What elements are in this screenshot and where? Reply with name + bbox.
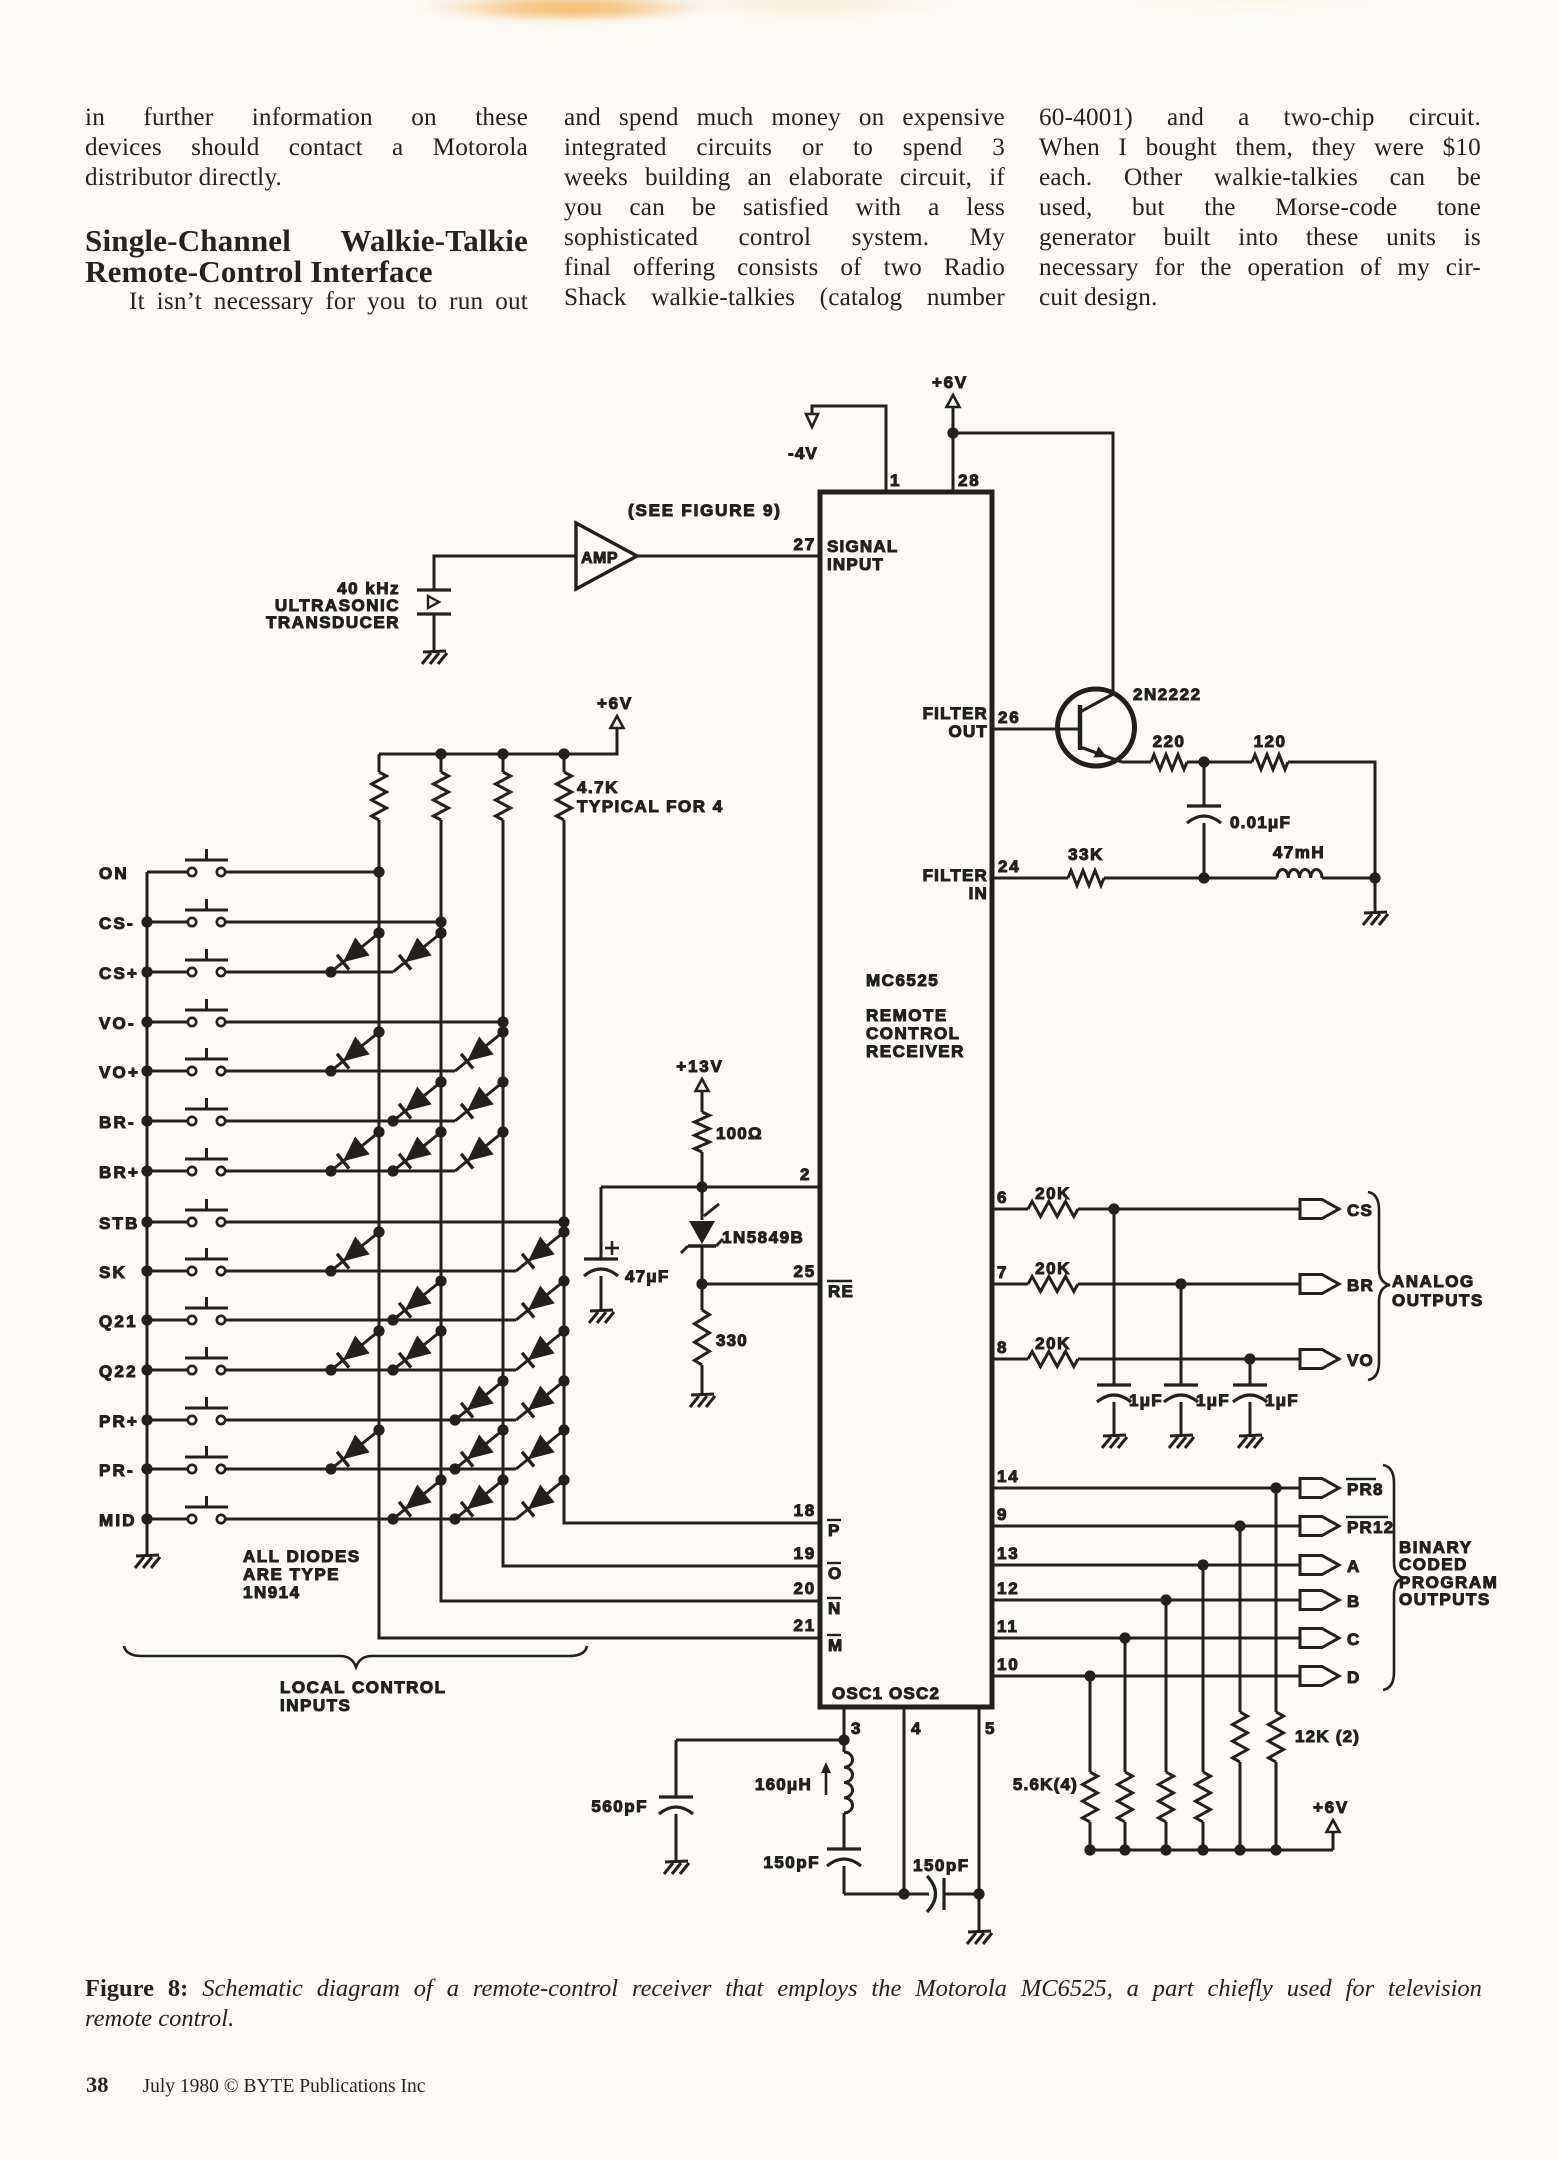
node output PR12 bbox=[1300, 1517, 1339, 1536]
junction BR filter bbox=[1175, 1278, 1186, 1289]
svg-text:120: 120 bbox=[1254, 732, 1287, 751]
svg-text:4.7K: 4.7K bbox=[577, 778, 619, 797]
node +6V pullup supply bbox=[611, 716, 624, 728]
wire SK row bbox=[225, 1270, 516, 1273]
wire pin 4 bbox=[903, 1707, 906, 1894]
wire column O bus to pin bbox=[503, 820, 820, 1566]
svg-text:(SEE FIGURE 9): (SEE FIGURE 9) bbox=[628, 501, 782, 520]
junction zener top bbox=[696, 1181, 707, 1192]
svg-text:VO-: VO- bbox=[99, 1014, 136, 1033]
wire pin 12 to output B bbox=[992, 1599, 1300, 1602]
resistor pullup C bbox=[1118, 1772, 1133, 1822]
svg-text:18: 18 bbox=[793, 1501, 816, 1520]
resistor 4.7K column O bbox=[502, 754, 505, 772]
diode D10 SK to column M bbox=[331, 1232, 379, 1271]
junction Q22 left bus bbox=[141, 1364, 152, 1375]
IC U1 MC6525 remote control receiver bbox=[820, 492, 992, 1707]
diode D14 Q22 to column M bbox=[331, 1331, 379, 1370]
wire pin 6 to resistor bbox=[992, 1208, 1028, 1211]
switch ON bbox=[147, 871, 188, 874]
junction VO+ left bus bbox=[141, 1065, 152, 1076]
diode D2 CS+ to column N bbox=[393, 933, 441, 972]
svg-text:P: P bbox=[828, 1521, 839, 1540]
svg-text:1μF: 1μF bbox=[1129, 1391, 1163, 1410]
svg-text:OUTPUTS: OUTPUTS bbox=[1399, 1590, 1491, 1609]
svg-text:CONTROL: CONTROL bbox=[866, 1024, 961, 1043]
junction +6V node bbox=[947, 427, 958, 438]
wire 1uF BR ground bbox=[1180, 1402, 1183, 1436]
wire pullup bus bbox=[379, 728, 617, 754]
ground 1uF BR bbox=[1170, 1435, 1193, 1436]
junction VO filter bbox=[1244, 1353, 1255, 1364]
wire PR12 pullup to bus bbox=[1239, 1762, 1242, 1850]
svg-text:560pF: 560pF bbox=[591, 1797, 648, 1816]
switch PR+ bbox=[147, 1419, 188, 1422]
node output C bbox=[1300, 1629, 1339, 1648]
svg-text:14: 14 bbox=[997, 1467, 1020, 1486]
wire C pullup bbox=[1124, 1638, 1127, 1772]
svg-text:Q21: Q21 bbox=[99, 1312, 138, 1331]
wire inductor to ground corner bbox=[1322, 877, 1375, 880]
wire 560pF ground bbox=[675, 1814, 678, 1862]
switch Q22 bbox=[147, 1369, 188, 1372]
junction CS- left bus bbox=[141, 916, 152, 927]
wire D pullup bbox=[1089, 1676, 1092, 1772]
wire pin 14 to output PR8 bbox=[992, 1487, 1300, 1490]
diode D19 PR- to column M bbox=[331, 1430, 379, 1469]
wire CS- row bbox=[225, 921, 441, 924]
junction Q21 left bus bbox=[141, 1314, 152, 1325]
wire pin 3 bbox=[843, 1707, 846, 1740]
switch VO- bbox=[147, 1021, 188, 1024]
svg-text:2: 2 bbox=[800, 1165, 811, 1184]
junction STB to column P bbox=[558, 1216, 569, 1227]
diode D13 Q21 to column P bbox=[516, 1281, 564, 1320]
wire pin 11 to output C bbox=[992, 1637, 1300, 1640]
junction PR12 bbox=[1234, 1520, 1245, 1531]
diode D8 BR+ to column N bbox=[393, 1132, 441, 1171]
svg-text:1μF: 1μF bbox=[1196, 1391, 1230, 1410]
junction bus PR8 bbox=[1270, 1844, 1281, 1855]
svg-text:+13V: +13V bbox=[676, 1057, 723, 1076]
svg-text:MID: MID bbox=[99, 1511, 137, 1530]
node output PR8 bbox=[1300, 1479, 1339, 1498]
svg-text:1N914: 1N914 bbox=[243, 1583, 301, 1602]
junction STB left bus bbox=[141, 1216, 152, 1227]
resistor 20K pin 6 bbox=[1028, 1202, 1078, 1217]
wire 1uF VO ground bbox=[1249, 1402, 1252, 1436]
svg-text:160μH: 160μH bbox=[755, 1775, 812, 1794]
diode D11 SK to column P bbox=[516, 1232, 564, 1271]
resistor 4.7K column M bbox=[378, 754, 381, 772]
svg-text:5: 5 bbox=[985, 1719, 996, 1738]
resistor 330 bbox=[701, 1284, 704, 1310]
svg-text:M: M bbox=[828, 1636, 842, 1655]
svg-text:Q22: Q22 bbox=[99, 1362, 138, 1381]
junction CS filter bbox=[1108, 1203, 1119, 1214]
brace binary outputs bbox=[1383, 1465, 1404, 1690]
junction A bbox=[1197, 1559, 1208, 1570]
svg-text:27: 27 bbox=[793, 535, 816, 554]
node +6V pullup bottom bbox=[1327, 1820, 1340, 1832]
ground 1uF CS bbox=[1103, 1435, 1126, 1436]
capacitor 150pF osc1 bbox=[843, 1813, 846, 1849]
svg-text:RE: RE bbox=[828, 1282, 854, 1301]
wire VO+ row bbox=[225, 1070, 455, 1073]
ground 560pF bbox=[665, 1861, 688, 1862]
wire zener to pin 25 node bbox=[701, 1246, 704, 1284]
brace local control inputs bbox=[124, 1646, 587, 1667]
svg-text:330: 330 bbox=[716, 1331, 748, 1350]
diode zener 1N5849B bbox=[701, 1187, 704, 1220]
diode D18 PR+ to column P bbox=[516, 1381, 564, 1420]
junction B bbox=[1160, 1594, 1171, 1605]
svg-text:PR8: PR8 bbox=[1347, 1480, 1384, 1499]
wire VO cap bbox=[1249, 1359, 1252, 1385]
diode D24 MID to column P bbox=[516, 1480, 564, 1519]
diode D16 Q22 to column P bbox=[516, 1331, 564, 1370]
svg-text:+6V: +6V bbox=[932, 373, 968, 392]
svg-text:220: 220 bbox=[1153, 732, 1186, 751]
junction inductor ground node bbox=[1369, 872, 1380, 883]
svg-text:O: O bbox=[828, 1564, 841, 1583]
svg-text:A: A bbox=[1347, 1557, 1360, 1576]
wire ON row bbox=[225, 871, 379, 874]
wire STB row bbox=[225, 1221, 564, 1224]
svg-text:ANALOG: ANALOG bbox=[1392, 1272, 1475, 1291]
wire C pullup to bus bbox=[1124, 1822, 1127, 1850]
svg-text:TRANSDUCER: TRANSDUCER bbox=[266, 613, 400, 632]
wire 33K to node bbox=[1104, 877, 1277, 880]
svg-text:33K: 33K bbox=[1068, 845, 1104, 864]
svg-text:2N2222: 2N2222 bbox=[1133, 685, 1202, 704]
svg-text:26: 26 bbox=[998, 708, 1021, 727]
junction osc1 node bbox=[838, 1734, 849, 1745]
diode D7 BR+ to column M bbox=[331, 1132, 379, 1171]
svg-text:20K: 20K bbox=[1035, 1334, 1071, 1353]
capacitor 0.01uF bbox=[1203, 762, 1206, 806]
ground filter bbox=[1364, 912, 1387, 913]
junction bus P bbox=[558, 748, 569, 759]
svg-text:1N5849B: 1N5849B bbox=[722, 1228, 804, 1247]
svg-text:RECEIVER: RECEIVER bbox=[866, 1042, 965, 1061]
junction pin25 node bbox=[696, 1278, 707, 1289]
svg-text:N: N bbox=[828, 1599, 840, 1618]
svg-text:4: 4 bbox=[911, 1719, 922, 1738]
svg-text:24: 24 bbox=[998, 857, 1021, 876]
resistor pullup B bbox=[1159, 1772, 1174, 1822]
svg-text:OUTPUTS: OUTPUTS bbox=[1392, 1291, 1484, 1310]
svg-text:BR: BR bbox=[1347, 1276, 1374, 1295]
wire pin 8 to resistor bbox=[992, 1358, 1028, 1361]
capacitor 560pF bbox=[675, 1740, 678, 1797]
resistor 20K pin 7 bbox=[1028, 1277, 1078, 1292]
switch VO+ bbox=[147, 1070, 188, 1073]
resistor 33K bbox=[1068, 871, 1104, 886]
ground transducer bbox=[423, 651, 446, 652]
resistor pullup D bbox=[1083, 1772, 1098, 1822]
svg-text:+6V: +6V bbox=[1313, 1798, 1349, 1817]
junction C bbox=[1119, 1632, 1130, 1643]
wire +6V to pin 28 bbox=[952, 407, 955, 492]
junction CS+ left bus bbox=[141, 966, 152, 977]
svg-text:8: 8 bbox=[997, 1338, 1008, 1357]
svg-text:ON: ON bbox=[99, 864, 129, 883]
resistor pullup PR8 bbox=[1269, 1712, 1284, 1762]
svg-text:7: 7 bbox=[997, 1263, 1008, 1282]
junction BR- left bus bbox=[141, 1115, 152, 1126]
wire BR+ row bbox=[225, 1170, 455, 1173]
diode D6 BR- to column O bbox=[455, 1082, 503, 1121]
wire node to 47uF bbox=[600, 1187, 603, 1259]
op-amp AMP bbox=[576, 523, 637, 589]
wire PR8 pullup bbox=[1275, 1488, 1278, 1712]
wire 100ohm to pin2 node bbox=[701, 1152, 704, 1187]
resistor 20K pin 8 bbox=[1028, 1352, 1078, 1367]
wire pin 24 to 33K bbox=[992, 877, 1068, 880]
svg-text:21: 21 bbox=[793, 1616, 816, 1635]
wire A pullup bbox=[1202, 1565, 1205, 1772]
wire 1uF CS ground bbox=[1113, 1402, 1116, 1436]
wire 47uF to ground bbox=[600, 1276, 603, 1311]
svg-text:LOCAL CONTROL: LOCAL CONTROL bbox=[280, 1678, 447, 1697]
svg-text:1: 1 bbox=[890, 471, 901, 490]
svg-text:150pF: 150pF bbox=[763, 1853, 820, 1872]
diode D1 CS+ to column M bbox=[331, 933, 379, 972]
diode D22 MID to column N bbox=[393, 1480, 441, 1519]
svg-text:9: 9 bbox=[997, 1505, 1008, 1524]
svg-text:+6V: +6V bbox=[597, 694, 633, 713]
diode D9 BR+ to column O bbox=[455, 1132, 503, 1171]
svg-text:CODED: CODED bbox=[1399, 1555, 1468, 1574]
wire pin 2 bbox=[601, 1186, 820, 1189]
node output D bbox=[1300, 1667, 1339, 1686]
wire osc bottom bus bbox=[844, 1893, 929, 1896]
ground oscillator bbox=[968, 1931, 991, 1932]
diode D12 Q21 to column N bbox=[393, 1281, 441, 1320]
inductor 47mH bbox=[1277, 870, 1322, 879]
svg-text:MC6525: MC6525 bbox=[866, 971, 939, 990]
node +13V supply bbox=[696, 1079, 709, 1091]
wire 20K to output VO bbox=[1078, 1358, 1300, 1361]
junction bus O bbox=[497, 748, 508, 759]
wire Q22 row bbox=[225, 1369, 516, 1372]
resistor pullup A bbox=[1196, 1772, 1211, 1822]
svg-text:IN: IN bbox=[969, 884, 988, 903]
svg-text:PR+: PR+ bbox=[99, 1412, 139, 1431]
svg-text:CS-: CS- bbox=[99, 914, 135, 933]
wire column N bus to pin bbox=[441, 820, 820, 1601]
wire pin 26 to transistor base bbox=[992, 728, 1080, 731]
junction MID left bus bbox=[141, 1513, 152, 1524]
switch SK bbox=[147, 1270, 188, 1273]
wire CS+ row bbox=[225, 971, 393, 974]
svg-text:PR12: PR12 bbox=[1347, 1518, 1394, 1537]
node output VO bbox=[1300, 1350, 1339, 1369]
svg-text:28: 28 bbox=[958, 471, 981, 490]
wire amp to pin 27 bbox=[637, 555, 820, 558]
svg-text:10: 10 bbox=[997, 1655, 1020, 1674]
wire 220 to 120 bbox=[1187, 761, 1252, 764]
wire D pullup to bus bbox=[1089, 1822, 1092, 1850]
svg-text:INPUTS: INPUTS bbox=[280, 1696, 351, 1715]
wire pin 9 to output PR12 bbox=[992, 1525, 1300, 1528]
capacitor ultrasonic transducer bbox=[417, 588, 451, 591]
svg-text:BR+: BR+ bbox=[99, 1163, 140, 1182]
capacitor 1uF CS bbox=[1097, 1383, 1131, 1386]
svg-text:VO+: VO+ bbox=[99, 1063, 140, 1082]
node output BR bbox=[1300, 1275, 1339, 1294]
node -4V supply bbox=[806, 414, 818, 427]
junction bus N bbox=[435, 748, 446, 759]
svg-text:CS+: CS+ bbox=[99, 964, 139, 983]
ground left bus bbox=[146, 1544, 149, 1556]
svg-text:19: 19 bbox=[793, 1544, 816, 1563]
svg-text:ALL DIODES: ALL DIODES bbox=[243, 1547, 361, 1566]
inductor 160uH bbox=[843, 1740, 846, 1752]
svg-text:20K: 20K bbox=[1035, 1259, 1071, 1278]
wire BR cap bbox=[1180, 1284, 1183, 1385]
svg-text:VO: VO bbox=[1347, 1351, 1374, 1370]
diode D5 BR- to column N bbox=[393, 1082, 441, 1121]
wire left ground bus bbox=[146, 872, 149, 1544]
switch CS- bbox=[147, 921, 188, 924]
switch STB bbox=[147, 1221, 188, 1224]
wire B pullup bbox=[1165, 1600, 1168, 1772]
resistor 120 bbox=[1252, 755, 1288, 770]
switch BR+ bbox=[147, 1170, 188, 1173]
svg-text:TYPICAL FOR 4: TYPICAL FOR 4 bbox=[577, 797, 724, 816]
junction pin5 bottom bbox=[973, 1888, 984, 1899]
svg-text:B: B bbox=[1347, 1592, 1360, 1611]
svg-text:6: 6 bbox=[997, 1188, 1008, 1207]
diode D4 VO+ to column O bbox=[455, 1032, 503, 1071]
wire 20K to output CS bbox=[1078, 1208, 1300, 1211]
svg-text:CS: CS bbox=[1347, 1201, 1373, 1220]
svg-text:1μF: 1μF bbox=[1265, 1391, 1299, 1410]
capacitor 1uF BR bbox=[1164, 1383, 1198, 1386]
svg-text:-4V: -4V bbox=[788, 444, 818, 463]
diode D3 VO+ to column M bbox=[331, 1032, 379, 1071]
wire pin 5 bbox=[978, 1707, 981, 1932]
wire +13V to 100ohm bbox=[701, 1091, 704, 1112]
svg-text:SIGNAL: SIGNAL bbox=[827, 537, 898, 556]
switch MID bbox=[147, 1518, 188, 1521]
ground 47uF bbox=[590, 1310, 613, 1311]
svg-text:5.6K(4): 5.6K(4) bbox=[1013, 1775, 1078, 1794]
transistor Q1 2N2222 bbox=[1058, 689, 1135, 766]
wire column M bus to pin bbox=[379, 820, 820, 1638]
wire pullup bottom bus bbox=[1090, 1849, 1333, 1852]
wire to ground bbox=[1374, 878, 1377, 913]
wire cap to pin5 column bbox=[944, 1893, 979, 1896]
wire pin 7 to resistor bbox=[992, 1283, 1028, 1286]
junction pin4 bottom bbox=[898, 1888, 909, 1899]
resistor 220 bbox=[1151, 755, 1187, 770]
wire PR- row bbox=[225, 1468, 516, 1471]
junction bus D bbox=[1084, 1844, 1095, 1855]
junction PR- left bus bbox=[141, 1463, 152, 1474]
resistor pullup PR12 bbox=[1233, 1712, 1248, 1762]
wire Q21 row bbox=[225, 1319, 516, 1322]
capacitor 47uF bbox=[584, 1257, 618, 1260]
wire column P bus to pin bbox=[564, 820, 820, 1523]
junction ON to column M bbox=[373, 866, 384, 877]
diode D15 Q22 to column N bbox=[393, 1331, 441, 1370]
node +6V top supply bbox=[947, 395, 960, 407]
junction bus C bbox=[1119, 1844, 1130, 1855]
svg-text:PR-: PR- bbox=[99, 1461, 135, 1480]
wire PR+ row bbox=[225, 1419, 516, 1422]
wire 20K to output BR bbox=[1078, 1283, 1300, 1286]
wire VO- row bbox=[225, 1021, 503, 1024]
wire bus to +6V bbox=[1332, 1832, 1335, 1850]
wire pin 25 bbox=[702, 1283, 820, 1286]
wire A pullup to bus bbox=[1202, 1822, 1205, 1850]
wire BR- row bbox=[225, 1120, 455, 1123]
node output B bbox=[1300, 1591, 1339, 1610]
wire 330 to ground bbox=[701, 1365, 704, 1395]
junction filter node bbox=[1198, 872, 1209, 883]
svg-text:150pF: 150pF bbox=[913, 1856, 970, 1875]
svg-text:C: C bbox=[1347, 1630, 1360, 1649]
junction bus A bbox=[1197, 1844, 1208, 1855]
wire PR12 pullup bbox=[1239, 1526, 1242, 1712]
wire MID row bbox=[225, 1518, 516, 1521]
resistor 100 ohm bbox=[695, 1112, 710, 1152]
diode D21 PR- to column P bbox=[516, 1430, 564, 1469]
wire pin 10 to output D bbox=[992, 1675, 1300, 1678]
switch CS+ bbox=[147, 971, 188, 974]
wire -4V to pin 1 bbox=[812, 406, 886, 492]
svg-text:D: D bbox=[1347, 1668, 1360, 1687]
svg-text:11: 11 bbox=[997, 1617, 1019, 1636]
svg-text:FILTER: FILTER bbox=[923, 866, 988, 885]
svg-text:0.01μF: 0.01μF bbox=[1230, 813, 1291, 832]
junction VO- left bus bbox=[141, 1016, 152, 1027]
brace analog outputs bbox=[1368, 1192, 1390, 1380]
ground 330 bbox=[691, 1394, 714, 1395]
svg-text:13: 13 bbox=[997, 1544, 1020, 1563]
node output A bbox=[1300, 1556, 1339, 1575]
svg-text:100Ω: 100Ω bbox=[716, 1124, 763, 1143]
svg-text:12K (2): 12K (2) bbox=[1295, 1727, 1360, 1746]
wire transducer to ground bbox=[433, 614, 436, 652]
svg-text:20: 20 bbox=[793, 1579, 816, 1598]
junction SK left bus bbox=[141, 1265, 152, 1276]
wire transducer to amp bbox=[434, 556, 576, 590]
junction BR+ left bus bbox=[141, 1165, 152, 1176]
wire +6V to transistor collector bbox=[953, 433, 1113, 692]
switch Q21 bbox=[147, 1319, 188, 1322]
svg-text:REMOTE: REMOTE bbox=[866, 1006, 948, 1025]
resistor 4.7K column N bbox=[440, 754, 443, 772]
svg-text:25: 25 bbox=[793, 1262, 816, 1281]
junction emitter RC node bbox=[1198, 756, 1209, 767]
svg-text:12: 12 bbox=[997, 1579, 1020, 1598]
svg-text:BR-: BR- bbox=[99, 1113, 136, 1132]
wire B pullup to bus bbox=[1165, 1822, 1168, 1850]
ground 1uF VO bbox=[1239, 1435, 1262, 1436]
svg-text:20K: 20K bbox=[1035, 1184, 1071, 1203]
diode D17 PR+ to column O bbox=[455, 1381, 503, 1420]
diode D23 MID to column O bbox=[455, 1480, 503, 1519]
resistor 4.7K column P bbox=[563, 754, 566, 772]
capacitor 150pF osc2 bbox=[927, 1876, 936, 1912]
svg-text:47μF: 47μF bbox=[625, 1267, 670, 1286]
svg-text:47mH: 47mH bbox=[1273, 843, 1325, 862]
junction bus B bbox=[1160, 1844, 1171, 1855]
